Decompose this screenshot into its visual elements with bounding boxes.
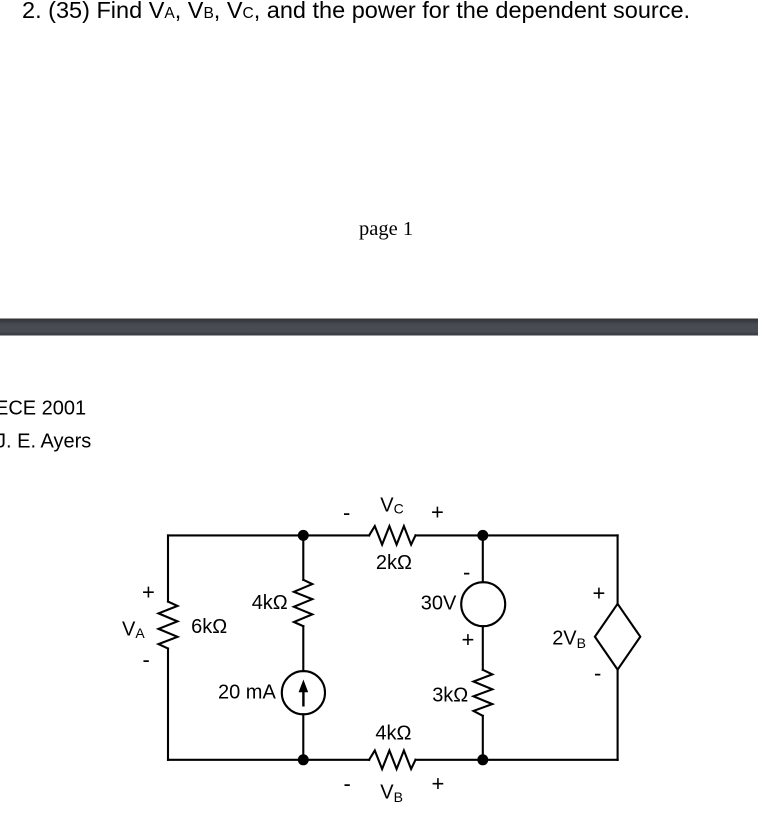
junction node bottom right-mid [477, 754, 488, 765]
wire middle branch upper [302, 535, 304, 579]
svg-text:J. E. Ayers: J. E. Ayers [0, 430, 91, 452]
wire middle between resistor and source [302, 626, 304, 671]
svg-text:+: + [142, 580, 155, 605]
voltage source V1 30V circle [461, 582, 505, 626]
svg-text:VB: VB [380, 782, 403, 805]
junction node top middle [298, 530, 309, 541]
wire top-left segment [168, 534, 369, 536]
wire bottom-left segment [168, 759, 369, 761]
svg-text:VC: VC [380, 494, 403, 516]
svg-text:20 mA: 20 mA [218, 682, 276, 704]
svg-text:page 1: page 1 [359, 218, 413, 240]
wire bottom-right segment [416, 759, 618, 761]
wire middle lower [302, 714, 304, 760]
svg-text:2kΩ: 2kΩ [376, 552, 412, 574]
svg-text:+: + [431, 500, 444, 525]
svg-text:-: - [343, 500, 350, 525]
junction node top right-mid [477, 530, 488, 541]
current source arrow [299, 680, 309, 707]
wire between 30V and 3k [482, 626, 484, 670]
svg-text:6kΩ: 6kΩ [191, 616, 227, 638]
wire right upper [617, 535, 619, 603]
svg-text:-: - [463, 560, 470, 585]
svg-text:4kΩ: 4kΩ [252, 592, 288, 614]
svg-text:VA: VA [122, 619, 145, 642]
resistor R 3k vertical right [474, 670, 493, 716]
wire top-right segment [416, 534, 618, 536]
svg-text:2VB: 2VB [552, 628, 586, 651]
svg-text:+: + [593, 581, 606, 606]
wire left upper [167, 535, 169, 601]
resistor R 6k vertical left [159, 602, 178, 649]
svg-text:+: + [432, 771, 445, 796]
svg-text:2. (35) Find VA, VB, VC, and t: 2. (35) Find VA, VB, VC, and the power f… [22, 0, 690, 23]
svg-text:3kΩ: 3kΩ [432, 684, 468, 706]
svg-text:-: - [143, 647, 150, 672]
junction node bottom middle [298, 754, 309, 765]
resistor R 4k horizontal bottom [369, 751, 415, 770]
current source I1 20mA circle [282, 671, 325, 714]
wire right lower [617, 670, 619, 760]
svg-text:30V: 30V [421, 592, 457, 614]
wire left lower [167, 649, 169, 760]
wire right-mid lower [482, 716, 484, 760]
svg-text:-: - [344, 771, 351, 796]
svg-text:ECE 2001: ECE 2001 [0, 398, 86, 420]
wire right-mid upper [482, 535, 484, 582]
resistor R 4k vertical middle [294, 580, 312, 626]
svg-text:+: + [462, 627, 475, 652]
svg-text:4kΩ: 4kΩ [375, 722, 411, 744]
svg-text:-: - [594, 661, 601, 686]
page separator bar [0, 319, 758, 336]
dependent source U1 diamond [595, 604, 640, 670]
resistor R 2k horizontal top [369, 526, 415, 545]
